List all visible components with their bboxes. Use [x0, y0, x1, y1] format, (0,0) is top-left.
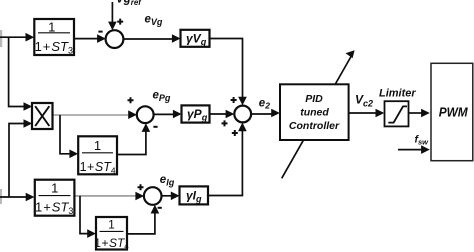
svg-text:1+ST3: 1+ST3: [35, 39, 73, 56]
svg-text:Limiter: Limiter: [379, 88, 416, 100]
svg-text:PID: PID: [305, 93, 323, 105]
svg-text:1: 1: [108, 218, 115, 232]
svg-text:1: 1: [94, 138, 101, 153]
svg-text:Controller: Controller: [289, 120, 340, 132]
svg-text:1+ST4: 1+ST4: [94, 236, 129, 251]
svg-text:tuned: tuned: [300, 106, 329, 118]
svg-text:PWM: PWM: [439, 104, 469, 119]
svg-text:1: 1: [51, 181, 58, 196]
svg-text:1+ST4: 1+ST4: [80, 160, 116, 176]
svg-text:1+ST3: 1+ST3: [35, 200, 73, 217]
